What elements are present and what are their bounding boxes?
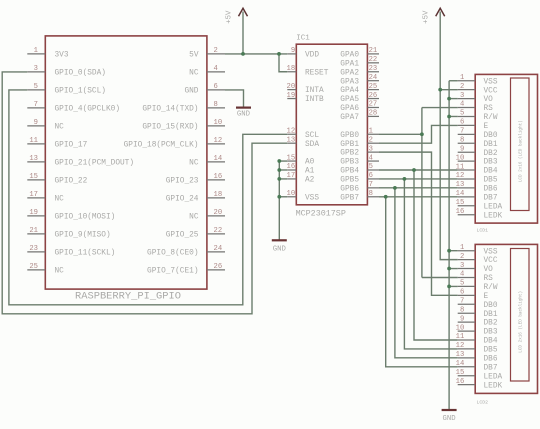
svg-text:INTA: INTA	[305, 87, 324, 95]
wire net GND: stub to IC1 pin row 12	[279, 160, 287, 162]
svg-text:GPIO_9(MISO): GPIO_9(MISO)	[55, 232, 111, 240]
svg-text:GND: GND	[443, 415, 457, 423]
svg-text:3: 3	[460, 92, 464, 100]
svg-text:8: 8	[460, 136, 464, 144]
svg-text:7: 7	[460, 297, 464, 305]
svg-text:GPA0: GPA0	[340, 52, 359, 60]
ground symbol GND (below IC1)	[272, 240, 287, 253]
svg-text:SDA: SDA	[305, 141, 319, 149]
svg-text:5: 5	[34, 83, 38, 91]
svg-text:6: 6	[369, 172, 373, 180]
svg-text:DB3: DB3	[484, 329, 498, 337]
svg-text:4: 4	[460, 101, 464, 109]
svg-text:12: 12	[287, 127, 296, 135]
svg-text:16: 16	[287, 163, 296, 171]
svg-text:DB2: DB2	[484, 320, 498, 328]
wire net RS: IC1 GPB0 to LCD1/LCD2 RS	[379, 133, 422, 135]
svg-text:16: 16	[456, 208, 465, 216]
svg-text:VCC: VCC	[484, 87, 498, 95]
svg-text:2: 2	[214, 47, 218, 55]
svg-text:GPB3: GPB3	[340, 159, 359, 167]
svg-text:LCD 2x16 (LED backlight): LCD 2x16 (LED backlight)	[518, 291, 523, 353]
svg-text:GPA7: GPA7	[340, 114, 359, 122]
svg-text:GPB0: GPB0	[340, 132, 359, 140]
svg-text:E: E	[484, 293, 489, 301]
svg-text:17: 17	[29, 191, 38, 199]
svg-text:R/W: R/W	[484, 114, 498, 122]
svg-text:4: 4	[214, 65, 218, 73]
svg-text:GPIO_21(PCM_DOUT): GPIO_21(PCM_DOUT)	[55, 160, 135, 168]
svg-text:GPIO_10(MOSI): GPIO_10(MOSI)	[55, 214, 116, 222]
svg-text:VO: VO	[484, 266, 494, 274]
svg-text:1: 1	[460, 74, 464, 82]
svg-text:1: 1	[34, 47, 38, 55]
svg-text:18: 18	[287, 65, 296, 73]
svg-text:GND: GND	[184, 88, 198, 96]
wire net GND: stub to IC1 pin row 13	[279, 169, 287, 171]
svg-text:7: 7	[460, 128, 464, 136]
svg-text:10: 10	[287, 190, 296, 198]
svg-text:NC: NC	[189, 214, 199, 222]
svg-text:8: 8	[214, 101, 218, 109]
svg-text:DB6: DB6	[484, 186, 498, 194]
svg-text:GPA1: GPA1	[340, 60, 359, 68]
svg-text:22: 22	[369, 56, 378, 64]
wire net GND: stub to IC1 pin row 16	[279, 196, 287, 198]
svg-text:22: 22	[214, 227, 223, 235]
junction net DB4 at GPB4	[412, 168, 416, 172]
wire net GND: stub to LCD1 VO	[449, 98, 458, 100]
svg-text:LCD1: LCD1	[477, 227, 489, 233]
supply symbol +5V (right)	[423, 8, 445, 23]
svg-text:A1: A1	[305, 168, 315, 176]
svg-text:3: 3	[460, 262, 464, 270]
svg-text:GPB1: GPB1	[340, 141, 359, 149]
svg-text:MCP23017SP: MCP23017SP	[296, 209, 346, 219]
svg-text:23: 23	[369, 65, 378, 73]
svg-text:NC: NC	[189, 70, 199, 78]
junction net 5V at LCD1 VCC	[438, 88, 442, 92]
svg-text:15: 15	[287, 154, 296, 162]
svg-text:SCL: SCL	[305, 132, 319, 140]
LCD module LCD2 (LCD 2x16)	[456, 244, 538, 406]
svg-text:15: 15	[456, 199, 465, 207]
svg-text:27: 27	[369, 101, 378, 109]
svg-text:6: 6	[214, 83, 218, 91]
svg-text:NC: NC	[55, 268, 65, 276]
svg-text:GPIO_4(GPCLK0): GPIO_4(GPCLK0)	[55, 106, 121, 114]
junction net GND at IC1 row 16	[277, 195, 281, 199]
wire net E1: IC1 GPB1 to LCD1 E	[379, 125, 458, 143]
svg-text:VDD: VDD	[305, 52, 319, 60]
svg-text:12: 12	[214, 137, 223, 145]
svg-text:VO: VO	[484, 96, 494, 104]
wire net 5V: RPi pin2 to IC1 VDD	[225, 53, 287, 55]
svg-text:LCD2: LCD2	[477, 400, 489, 406]
svg-text:6: 6	[460, 289, 464, 297]
svg-text:+5V: +5V	[423, 10, 431, 24]
svg-text:2: 2	[369, 136, 373, 144]
svg-text:DB5: DB5	[484, 177, 498, 185]
svg-text:GND: GND	[237, 111, 251, 119]
svg-text:GND: GND	[273, 245, 287, 253]
wire net 5V: branch to LCD1 VCC	[440, 89, 458, 91]
junction net GND at LCD2 R/W	[447, 285, 451, 289]
svg-text:LCD 2x16 (LED backlight): LCD 2x16 (LED backlight)	[518, 120, 523, 182]
svg-text:20: 20	[287, 83, 296, 91]
svg-text:A2: A2	[305, 177, 315, 185]
wire net GND: RPi pin6 to ground	[225, 90, 244, 107]
svg-text:6: 6	[460, 119, 464, 127]
junction net 5V at +5V riser	[241, 52, 245, 56]
svg-text:GPB4: GPB4	[340, 168, 359, 176]
svg-text:10: 10	[456, 154, 465, 162]
svg-text:GPIO_7(CE1): GPIO_7(CE1)	[147, 268, 198, 276]
svg-text:4: 4	[460, 271, 464, 279]
svg-text:RS: RS	[484, 105, 494, 113]
wire net DB6: IC1 GPB6 to LCD1/LCD2 DB6	[379, 187, 458, 189]
wire net SCL: RPi GPIO_1 loop to IC1 SCL	[9, 90, 287, 305]
svg-text:DB0: DB0	[484, 302, 498, 310]
svg-text:R/W: R/W	[484, 284, 498, 292]
connector J1 RASPBERRY_PI_GPIO	[27, 36, 225, 303]
svg-text:4: 4	[369, 154, 373, 162]
svg-text:26: 26	[369, 92, 378, 100]
svg-text:1: 1	[460, 244, 464, 252]
svg-text:LEDA: LEDA	[484, 203, 503, 211]
svg-text:9: 9	[34, 119, 38, 127]
svg-text:GPB7: GPB7	[340, 194, 359, 202]
svg-text:E: E	[484, 123, 489, 131]
svg-text:3V3: 3V3	[55, 52, 69, 60]
svg-text:VSS: VSS	[484, 248, 498, 256]
junction net DB5 at GPB5	[403, 177, 407, 181]
junction net GND at IC1 row 14	[277, 177, 281, 181]
ground symbol GND (below RPi pin6)	[236, 108, 251, 119]
svg-text:GPA6: GPA6	[340, 105, 359, 113]
junction net GND at LCD1 R/W	[447, 115, 451, 119]
svg-text:19: 19	[287, 92, 296, 100]
wire net 5V: branch to IC1 RESET	[279, 54, 287, 72]
svg-text:26: 26	[214, 263, 223, 271]
svg-text:RS: RS	[484, 275, 494, 283]
svg-text:RASPBERRY_PI_GPIO: RASPBERRY_PI_GPIO	[75, 291, 181, 303]
svg-text:GPIO_8(CE0): GPIO_8(CE0)	[147, 250, 198, 258]
wire net GND: stub to LCD1 R/W	[449, 115, 458, 117]
svg-text:9: 9	[291, 47, 295, 55]
svg-text:GPIO_23: GPIO_23	[166, 178, 199, 186]
svg-text:GPA2: GPA2	[340, 69, 359, 77]
svg-text:19: 19	[29, 209, 38, 217]
supply symbol +5V (left)	[226, 8, 248, 23]
svg-text:DB2: DB2	[484, 150, 498, 158]
wire net GND: LCD column (VSS/VO/R/W of both LCDs)	[448, 81, 450, 410]
svg-text:28: 28	[369, 110, 378, 118]
junction net GND at LCD1 VO	[447, 97, 451, 101]
svg-text:2: 2	[460, 83, 464, 91]
svg-text:DB7: DB7	[484, 194, 498, 202]
svg-text:3: 3	[34, 65, 38, 73]
junction net DB6 at GPB6	[393, 186, 397, 190]
junction net GND at IC1 row 13	[277, 168, 281, 172]
svg-text:DB0: DB0	[484, 132, 498, 140]
svg-text:20: 20	[214, 209, 223, 217]
svg-text:9: 9	[460, 315, 464, 323]
svg-text:GPIO_1(SCL): GPIO_1(SCL)	[55, 88, 106, 96]
wire net DB5: IC1 GPB5 to LCD1/LCD2 DB5	[379, 178, 458, 180]
wire net DB7: IC1 GPB7 to LCD1/LCD2 DB7	[379, 196, 458, 198]
svg-text:GPB6: GPB6	[340, 185, 359, 193]
svg-text:10: 10	[456, 324, 465, 332]
svg-text:VSS: VSS	[484, 78, 498, 86]
ground symbol GND (below LCD2)	[442, 410, 457, 423]
svg-text:A0: A0	[305, 159, 315, 167]
svg-text:NC: NC	[189, 160, 199, 168]
svg-text:16: 16	[456, 378, 465, 386]
svg-text:+5V: +5V	[226, 10, 234, 24]
svg-text:13: 13	[287, 136, 296, 144]
svg-text:DB1: DB1	[484, 311, 498, 319]
svg-text:5V: 5V	[189, 52, 199, 60]
svg-text:VCC: VCC	[484, 257, 498, 265]
IC U1 (IC1) MCP23017SP	[287, 35, 379, 219]
svg-text:5: 5	[460, 280, 464, 288]
svg-text:8: 8	[460, 306, 464, 314]
svg-text:10: 10	[214, 119, 223, 127]
wire net GND: stub to LCD2 R/W	[449, 285, 458, 287]
svg-text:GPIO_11(SCKL): GPIO_11(SCKL)	[55, 250, 116, 258]
svg-text:INTB: INTB	[305, 96, 324, 104]
wire net GND: IC1 A0/A1/A2/VSS tie-down	[278, 161, 280, 240]
svg-text:16: 16	[214, 173, 223, 181]
junction net GND at LCD2 VSS	[447, 249, 451, 253]
svg-text:RESET: RESET	[305, 69, 329, 77]
svg-text:21: 21	[29, 227, 38, 235]
wire net GND: stub to LCD2 VO	[449, 268, 458, 270]
svg-text:3: 3	[369, 145, 373, 153]
svg-text:17: 17	[287, 172, 296, 180]
svg-text:GPIO_0(SDA): GPIO_0(SDA)	[55, 70, 106, 78]
svg-text:GPB2: GPB2	[340, 150, 359, 158]
svg-text:18: 18	[214, 191, 223, 199]
junction net 5V at RESET branch	[277, 52, 281, 56]
svg-text:23: 23	[29, 245, 38, 253]
svg-text:DB5: DB5	[484, 347, 498, 355]
svg-text:25: 25	[369, 83, 378, 91]
svg-text:GPA3: GPA3	[340, 78, 359, 86]
svg-text:9: 9	[460, 145, 464, 153]
svg-text:14: 14	[214, 155, 223, 163]
svg-text:DB4: DB4	[484, 168, 498, 176]
svg-text:LEDK: LEDK	[484, 212, 503, 220]
svg-text:GPIO_22: GPIO_22	[55, 178, 88, 186]
svg-text:GPIO_25: GPIO_25	[166, 232, 199, 240]
svg-text:24: 24	[369, 74, 378, 82]
svg-text:GPA5: GPA5	[340, 96, 359, 104]
svg-text:GPIO_18(PCM_CLK): GPIO_18(PCM_CLK)	[124, 142, 199, 150]
svg-text:GPA4: GPA4	[340, 87, 359, 95]
svg-text:24: 24	[214, 245, 223, 253]
svg-text:DB4: DB4	[484, 338, 498, 346]
wire net GND: stub to LCD1 VSS	[449, 80, 458, 82]
svg-text:DB1: DB1	[484, 141, 498, 149]
svg-text:8: 8	[369, 190, 373, 198]
junction net DB7 at GPB7	[384, 195, 388, 199]
svg-text:GPIO_15(RXD): GPIO_15(RXD)	[142, 124, 198, 132]
LCD module LCD1 (LCD 2x16)	[456, 74, 538, 233]
svg-text:15: 15	[29, 173, 38, 181]
svg-text:11: 11	[29, 137, 38, 145]
svg-text:NC: NC	[55, 196, 65, 204]
svg-text:7: 7	[369, 181, 373, 189]
wire net 5V: riser to +5V symbol	[242, 12, 244, 54]
junction net RS at GPB0	[420, 132, 424, 136]
svg-text:2: 2	[460, 253, 464, 261]
svg-text:21: 21	[369, 47, 378, 55]
svg-text:GPIO_17: GPIO_17	[55, 142, 88, 150]
svg-text:GPIO_14(TXD): GPIO_14(TXD)	[142, 106, 198, 114]
svg-text:7: 7	[34, 101, 38, 109]
wire net SDA: RPi GPIO_0 loop to IC1 SDA	[2, 72, 287, 314]
wire net 5V: right riser to LCD VCC pins	[440, 12, 458, 260]
svg-text:DB7: DB7	[484, 364, 498, 372]
svg-text:1: 1	[369, 127, 373, 135]
svg-text:25: 25	[29, 263, 38, 271]
wire net E2: IC1 GPB2 to LCD2 E	[379, 152, 458, 295]
wire net GND: stub to LCD2 VSS	[449, 250, 458, 252]
svg-text:15: 15	[456, 369, 465, 377]
junction net GND at IC1 row 12	[277, 159, 281, 163]
wire net DB4: IC1 GPB4 to LCD1/LCD2 DB4	[379, 169, 458, 171]
junction net GND at LCD2 VO	[447, 267, 451, 271]
svg-text:LEDA: LEDA	[484, 373, 503, 381]
svg-text:5: 5	[460, 110, 464, 118]
svg-text:5: 5	[369, 163, 373, 171]
svg-text:VSS: VSS	[305, 194, 319, 202]
svg-text:LEDK: LEDK	[484, 382, 503, 390]
svg-text:DB3: DB3	[484, 159, 498, 167]
wire net GND: stub to IC1 pin row 14	[279, 178, 287, 180]
svg-text:DB6: DB6	[484, 355, 498, 363]
svg-text:IC1: IC1	[296, 35, 310, 43]
svg-text:NC: NC	[55, 124, 65, 132]
svg-text:13: 13	[29, 155, 38, 163]
svg-text:GPIO_24: GPIO_24	[166, 196, 199, 204]
svg-text:GPB5: GPB5	[340, 177, 359, 185]
